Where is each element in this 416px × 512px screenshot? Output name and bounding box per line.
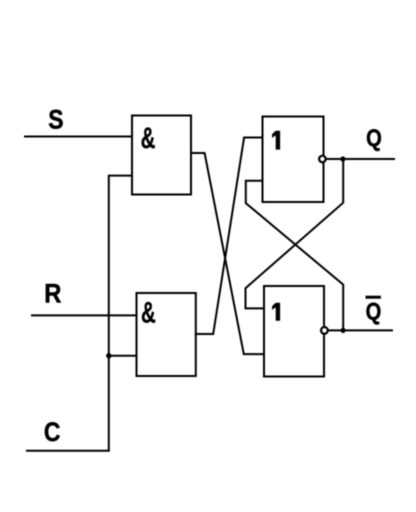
svg-text:C: C (44, 417, 61, 447)
wire Q feedback to NOR D2.2 pin 1 (246, 159, 344, 308)
wire C branch to AND D1.2 pin 2 (109, 355, 137, 357)
junction node Q-bar (341, 328, 346, 333)
wire D1.2 output diagonal to NOR D2.1 pin 1 (196, 138, 263, 335)
wire Q-bar feedback to NOR D2.1 pin 2 (246, 181, 343, 331)
and-gate D1.1 body (132, 116, 191, 195)
junction node on C line (106, 353, 111, 358)
wire Q output (327, 158, 394, 160)
wire D1.1 output diagonal to NOR D2.2 pin 2 (191, 153, 264, 354)
inverter bubble on D2.2 output (321, 327, 328, 334)
svg-text:&: & (141, 297, 156, 330)
svg-text:&: & (141, 122, 156, 155)
and-gate D1.2 body (137, 293, 196, 376)
wire S input (25, 136, 132, 138)
wire C input and vertical run up to AND D1.1 pin 2 (27, 176, 132, 451)
svg-text:S: S (48, 105, 63, 135)
svg-text:Q: Q (366, 124, 382, 151)
label Q-bar overline (366, 296, 381, 299)
svg-text:Q: Q (366, 298, 382, 325)
nor-gate D2.1 body (263, 117, 324, 203)
gate symbol 1 D2.2 (272, 303, 280, 321)
junction node Q (340, 156, 345, 161)
wire R input (32, 314, 137, 316)
gate symbol 1 D2.1 (272, 131, 280, 150)
wire Q-bar output (328, 329, 392, 331)
svg-text:R: R (44, 279, 61, 309)
inverter bubble on D2.1 output (319, 156, 326, 163)
nor-gate D2.2 body (264, 286, 324, 377)
